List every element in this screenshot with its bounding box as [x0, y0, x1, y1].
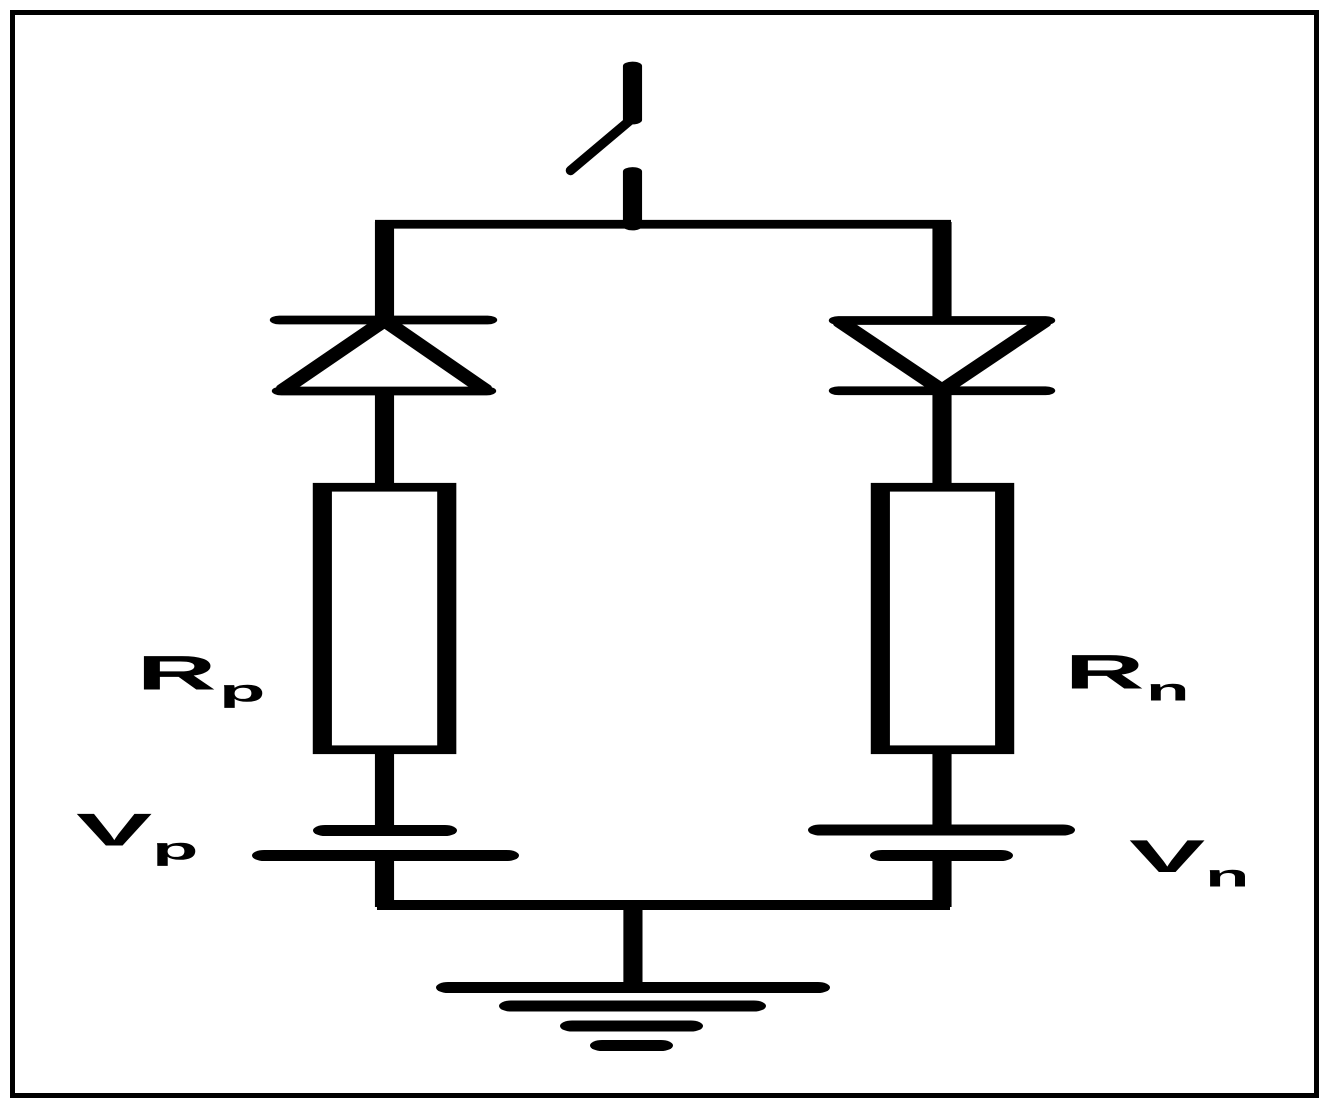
- wire: [938, 393, 947, 487]
- battery Vp: [264, 831, 507, 856]
- switch S1 arm: [571, 117, 635, 171]
- diode D1: [279, 320, 487, 391]
- wire: [629, 903, 638, 985]
- ground: [448, 988, 818, 1046]
- wire: [938, 752, 947, 831]
- wire: [380, 389, 389, 487]
- wire: [938, 858, 947, 907]
- label Rp: [144, 656, 262, 708]
- wire: [380, 222, 389, 322]
- wire: [380, 859, 389, 907]
- wire: [377, 900, 950, 910]
- diode D2: [838, 321, 1045, 391]
- label Vp: [77, 814, 195, 866]
- switch S1: [628, 66, 637, 226]
- label Rn: [1072, 655, 1185, 700]
- wire: [375, 220, 951, 229]
- resistor Rp: [322, 487, 446, 750]
- label Vn: [1130, 840, 1245, 886]
- resistor Rn: [880, 487, 1004, 750]
- wire: [380, 752, 389, 832]
- wire: [938, 222, 947, 322]
- battery Vn: [820, 830, 1063, 856]
